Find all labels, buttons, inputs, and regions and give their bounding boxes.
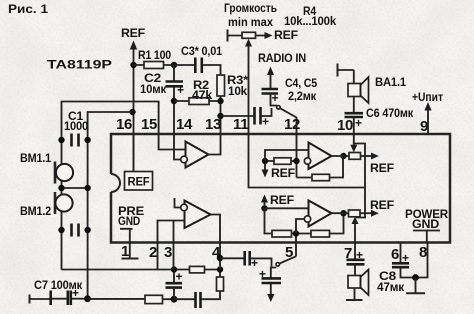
- wire pin 4 / preamp2 output: [211, 215, 221, 270]
- speaker BA1.1: [338, 64, 369, 104]
- capacitor (channel 2 radio input, polarized): [259, 267, 281, 302]
- wire power amp2 non-inverting input: [265, 207, 309, 209]
- svg-text:+: +: [355, 116, 362, 130]
- junction dot REF/R1: [130, 62, 136, 68]
- resistor (between pin3 and pin4 nodes): [174, 266, 220, 273]
- resistor R1: [134, 62, 175, 69]
- junction dot power amp2 fb/pin5: [293, 230, 299, 236]
- wire power amp1 non-inverting input: [265, 150, 309, 161]
- wire R4 wiper to pin 11 and volume control line: [249, 45, 366, 188]
- wire pin 7 into attenuator2 with arrow: [352, 217, 359, 243]
- junction dot pin13/C5: [217, 113, 223, 119]
- capacitor (channel 2 coupling, to switch): [220, 251, 272, 270]
- junction dot power amp1 output: [340, 153, 346, 159]
- svg-text:10k...100k: 10k...100k: [284, 14, 336, 28]
- svg-text:8: 8: [419, 244, 427, 261]
- junction dot power amp1 REF bias: [262, 158, 268, 164]
- speaker BA1.2: [346, 270, 369, 301]
- svg-text:Громкость: Громкость: [224, 1, 277, 15]
- svg-text:REF: REF: [128, 175, 150, 189]
- svg-text:+: +: [272, 91, 279, 105]
- junction dots mid mic row: [58, 185, 91, 191]
- capacitor C4: [262, 89, 279, 106]
- junction dot pin3 node: [171, 266, 177, 272]
- resistor R2: [174, 98, 221, 105]
- svg-text:R1 100: R1 100: [138, 48, 171, 62]
- wire pin 2 (to preamp2 input): [158, 221, 185, 270]
- svg-text:REF: REF: [271, 166, 295, 180]
- capacitor (series, bottom rail): [174, 291, 220, 308]
- wire pin 12 to power amp input: [296, 117, 298, 178]
- svg-text:Рис. 1: Рис. 1: [8, 2, 48, 16]
- svg-text:RADIO IN: RADIO IN: [258, 51, 306, 65]
- wire mic right rail to REF node: [88, 112, 133, 299]
- power amp 2 bias resistor: [272, 230, 292, 237]
- capacitor (pin 3 feedback, polarized): [166, 270, 183, 300]
- svg-text:REF: REF: [370, 161, 394, 175]
- pin 1 open terminal tick: [122, 258, 139, 260]
- wire volume control bus vertical: [356, 156, 365, 218]
- REF arrow up: [130, 41, 137, 50]
- svg-text:11: 11: [233, 116, 248, 133]
- wire pin 8: [416, 243, 428, 278]
- svg-text:1000: 1000: [64, 119, 88, 133]
- potentiometer R4: [228, 30, 273, 47]
- svg-text:C6 470мк: C6 470мк: [366, 106, 414, 120]
- svg-text:REF: REF: [370, 198, 394, 212]
- svg-text:GND: GND: [412, 217, 440, 231]
- attenuator box (volume element 1): [349, 153, 361, 160]
- svg-text:10k: 10k: [228, 84, 248, 98]
- svg-text:1: 1: [121, 243, 129, 260]
- svg-text:+: +: [176, 270, 183, 284]
- wire power amp1 output: [332, 155, 350, 157]
- capacitor C5: [221, 107, 272, 129]
- wire preamp2 inverting input stub: [175, 198, 182, 208]
- junction dot power amp1 input: [293, 158, 299, 164]
- wire C2 to pin 14 and preamp1 inverting input: [174, 87, 181, 160]
- wire attenuator2 output / REF arrow right: [360, 210, 379, 217]
- svg-text:REF: REF: [270, 193, 294, 207]
- svg-text:47мк: 47мк: [377, 280, 405, 294]
- wire pin 10 into attenuator with arrow: [350, 134, 365, 156]
- capacitor C8: [392, 243, 416, 278]
- wire attenuator1 output / REF arrow right: [361, 153, 379, 160]
- svg-text:3: 3: [164, 244, 172, 261]
- label PRE GND: [118, 204, 144, 259]
- capacitor C2: [166, 65, 185, 97]
- svg-text:14: 14: [176, 116, 193, 133]
- svg-text:REF: REF: [274, 28, 298, 42]
- svg-text:GND: GND: [118, 214, 140, 228]
- svg-text:+Uпит: +Uпит: [412, 90, 443, 104]
- svg-text:C4, C5: C4, C5: [285, 76, 317, 90]
- svg-text:BM1.1: BM1.1: [20, 151, 51, 165]
- junction dot R1/C2/C3: [171, 62, 177, 68]
- svg-text:10: 10: [337, 117, 353, 134]
- wire pin5 node to inverting input: [296, 219, 305, 234]
- svg-text:13: 13: [205, 116, 221, 133]
- svg-text:+: +: [177, 83, 184, 97]
- junction dot pin4/switch: [217, 255, 223, 261]
- REF arrow up (power amp 2): [261, 195, 268, 206]
- attenuator box (volume element 2): [349, 210, 361, 217]
- junction dot C7 / mic rail: [84, 295, 91, 302]
- switch SA1.1 contact: [277, 106, 281, 110]
- svg-text:47k: 47k: [192, 88, 213, 102]
- svg-text:9: 9: [420, 118, 428, 135]
- svg-text:BA1.1: BA1.1: [375, 75, 406, 89]
- capacitor C7: [30, 286, 88, 305]
- op-amp preamp 1: [181, 142, 209, 168]
- svg-text:C3* 0,01: C3* 0,01: [181, 44, 222, 58]
- capacitor on pin 7: [347, 243, 365, 276]
- svg-text:+: +: [259, 267, 266, 281]
- resistor R3: [217, 75, 225, 134]
- svg-text:15: 15: [141, 116, 157, 133]
- ground stub pin8: [406, 278, 425, 294]
- switch SA1.2 blade: [279, 256, 296, 263]
- wire preamp1 output to pin 13: [209, 134, 221, 155]
- svg-text:2,2мк: 2,2мк: [288, 89, 317, 103]
- junction dot C2/R2/pin14: [171, 98, 177, 104]
- junction dots lower cap row: [58, 227, 91, 233]
- capacitor (channel 2 input): [72, 224, 79, 237]
- microphone BM1.2: [55, 192, 73, 214]
- junction dot C8/pin8: [412, 274, 419, 281]
- bottom rail wire: [88, 298, 146, 300]
- power amp 2 feedback resistor: [311, 230, 330, 237]
- resistor (pin 4 feedback): [219, 270, 221, 278]
- svg-text:10мк: 10мк: [140, 82, 167, 96]
- junction dot bottom rail / feedback cap: [171, 296, 178, 303]
- wire power amp2 bias chain: [265, 208, 344, 233]
- svg-text:12: 12: [284, 116, 300, 133]
- RADIO IN arrow: [267, 67, 274, 90]
- +Uпит arrow / pin 9: [424, 102, 431, 134]
- junction dot power amp2 input: [261, 205, 267, 211]
- svg-text:BM1.2: BM1.2: [20, 204, 51, 218]
- op-amp preamp 2: [181, 201, 211, 229]
- REF box inside IC: [125, 134, 153, 190]
- svg-text:6: 6: [391, 246, 399, 263]
- label POWER GND: [405, 207, 449, 243]
- wire mic left rail lower segments: [61, 181, 63, 270]
- svg-text:16: 16: [116, 116, 132, 133]
- junction dot REF/mic rail: [129, 109, 135, 115]
- op-amp power amp 1: [304, 143, 331, 170]
- pin labels top row: [116, 116, 428, 135]
- capacitor C1: [72, 134, 79, 147]
- capacitor C3: [174, 58, 221, 76]
- wire mic rail to pin 2: [62, 269, 175, 271]
- wire pin 5: [295, 234, 297, 257]
- svg-text:+: +: [356, 248, 363, 262]
- resistor (bottom rail): [145, 295, 174, 303]
- junction dots C1 row: [58, 137, 64, 143]
- svg-text:min max: min max: [228, 15, 273, 29]
- wire mic left rail to pin 15: [62, 102, 186, 165]
- REF arrow down (power amp 1): [262, 164, 269, 178]
- junction dot power amp2 output: [340, 210, 346, 216]
- svg-text:TA8119P: TA8119P: [47, 58, 112, 72]
- capacitor C6: [345, 97, 364, 135]
- node REF net vertical / pin 16 wire: [133, 44, 135, 172]
- op-amp power amp 2: [304, 201, 331, 227]
- junction dot R2/R3/pin13: [217, 98, 223, 104]
- junction dot pin4 node lower: [217, 266, 223, 272]
- switch SA1.1 blade: [280, 108, 297, 117]
- power amp 1 feedback resistor: [297, 159, 344, 181]
- power amp 1 bias resistor: [265, 158, 297, 165]
- wire pin 3: [173, 221, 175, 270]
- switch SA1.2 contact: [276, 263, 280, 267]
- svg-text:REF: REF: [121, 26, 145, 40]
- IC U1 body outline with notch: [111, 134, 450, 243]
- svg-text:2: 2: [149, 244, 157, 261]
- pin labels bottom row: [121, 243, 427, 263]
- svg-text:C7 100мк: C7 100мк: [34, 278, 83, 292]
- svg-text:+: +: [402, 251, 409, 265]
- svg-text:+: +: [262, 115, 269, 129]
- microphone BM1.1: [55, 162, 73, 184]
- wire power amp2 output: [332, 212, 349, 214]
